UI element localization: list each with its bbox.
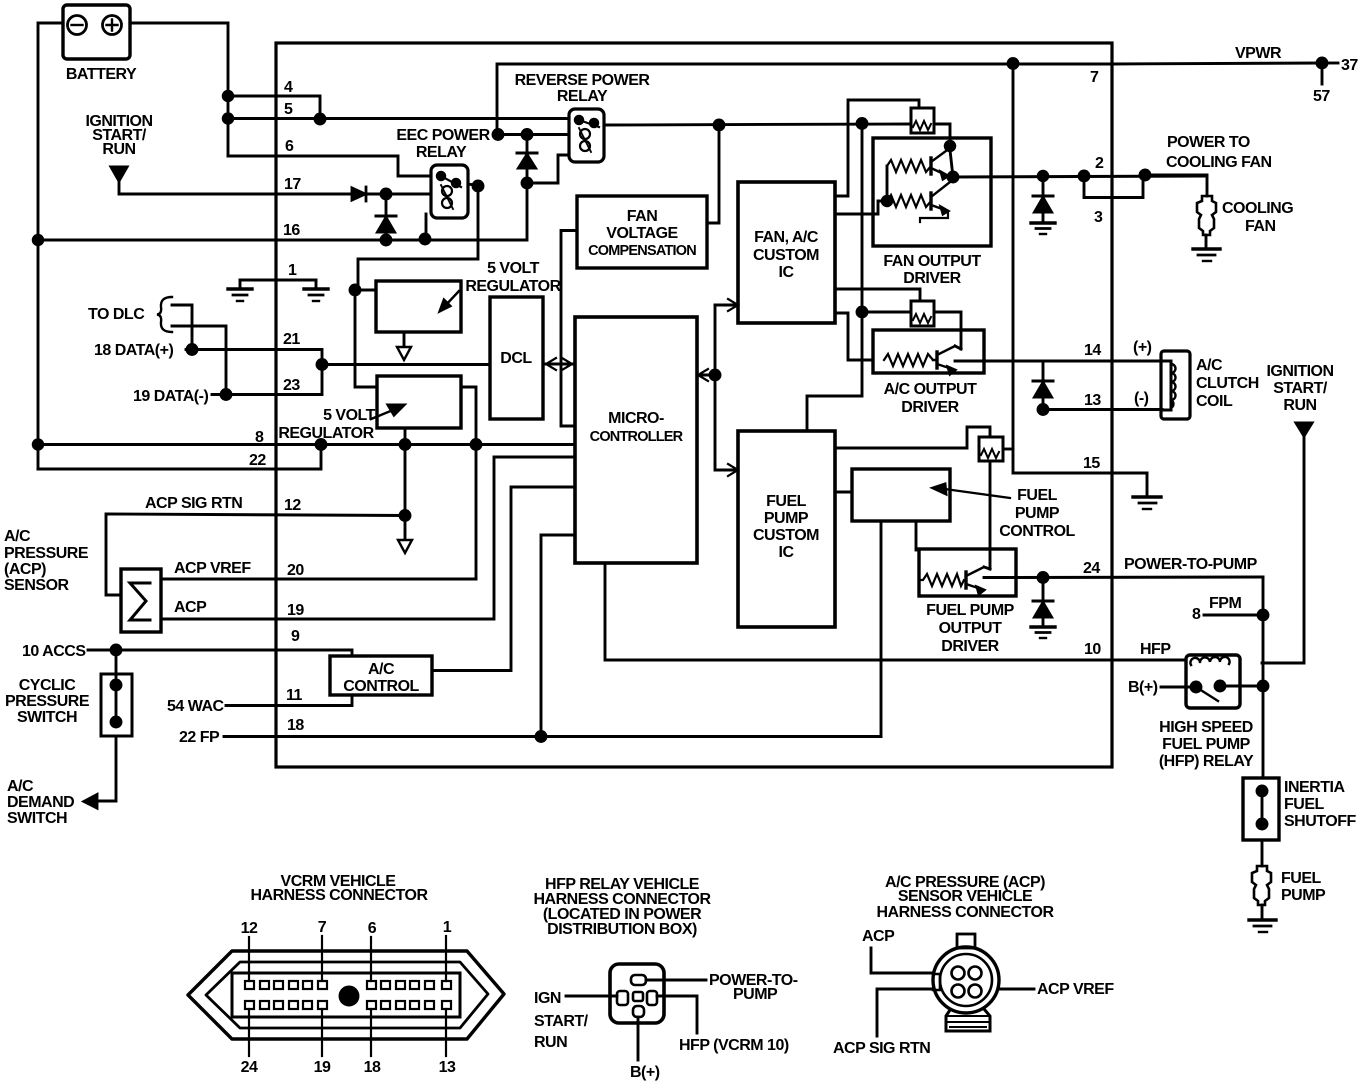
wire pin 12 ACP SIG RTN [106, 514, 405, 595]
node EEC output [473, 181, 483, 191]
sense resistor R1 box [911, 108, 934, 133]
diode CR6 wire24 clamp [1033, 577, 1053, 626]
svg-text:57: 57 [1313, 88, 1330, 105]
ignition feed arrow (right) [1296, 423, 1312, 436]
svg-text:INERTIA: INERTIA [1284, 779, 1345, 796]
svg-text:TO DLC: TO DLC [88, 306, 145, 323]
node flyback diode top [522, 130, 532, 140]
wire pin 8 VREF bus [38, 443, 575, 446]
resistor R3 zigzag [887, 195, 931, 207]
svg-text:B(+): B(+) [630, 1064, 660, 1081]
A/C demand switch arrow [84, 795, 97, 809]
microcontroller U1 box [575, 317, 697, 563]
A/C demand switch label [7, 778, 74, 827]
svg-text:12: 12 [284, 497, 301, 514]
svg-text:PUMP: PUMP [1281, 887, 1326, 904]
wire pin 4 [228, 96, 320, 119]
inertia fuel shutoff switch S2 [1243, 778, 1279, 840]
wire B(+) to relay [1161, 686, 1196, 689]
VR1 output open arrow [397, 347, 411, 360]
ignition start/run label (left) [85, 113, 152, 158]
svg-text:FAN OUTPUT: FAN OUTPUT [883, 253, 981, 270]
pin 19 leader [321, 1009, 323, 1056]
wire pin 11 WAC to A/C control [226, 695, 352, 706]
ground G7 [1249, 920, 1276, 932]
fuel pump custom IC label [753, 493, 819, 561]
svg-text:4: 4 [284, 79, 293, 96]
inertia fuel shutoff label [1284, 779, 1356, 830]
wire pin 6 to EEC relay contact [228, 156, 431, 176]
svg-text:SENSOR: SENSOR [4, 577, 70, 594]
svg-text:ACP: ACP [174, 599, 207, 616]
svg-text:6: 6 [368, 920, 377, 937]
svg-text:11: 11 [286, 687, 303, 704]
svg-text:24: 24 [241, 1059, 258, 1076]
svg-text:FAN: FAN [627, 208, 658, 225]
wire fuel IC pin to R6 top [835, 427, 990, 448]
svg-text:RELAY: RELAY [557, 88, 608, 105]
wire fan IC pin to FOD lower [835, 201, 887, 214]
svg-text:ACP VREF: ACP VREF [174, 560, 251, 577]
wire arrow into fan IC [715, 299, 738, 311]
wire pin 19 ACP into micro [161, 457, 575, 619]
svg-text:IGN: IGN [534, 990, 561, 1007]
wire pin 1 ground bus [240, 279, 316, 282]
power-to-pump label (connector) [709, 972, 798, 1003]
svg-text:SWITCH: SWITCH [7, 810, 67, 827]
svg-text:8: 8 [1192, 606, 1201, 623]
svg-text:19 DATA(-): 19 DATA(-) [133, 388, 208, 405]
pin 18 leader [370, 1009, 372, 1056]
svg-text:MICRO-: MICRO- [608, 410, 664, 427]
fan output driver box [873, 138, 991, 246]
ground G4 [1193, 249, 1220, 261]
wire fan to ground [1205, 235, 1208, 248]
wire stub into 5V regulator 1 [355, 289, 376, 292]
wire ACP VREF riser to wire 20 [475, 445, 478, 580]
wire VR2 right stub down to wire 8 [461, 387, 476, 444]
wire FVC output to microcontroller [561, 231, 577, 427]
HFP relay connector J2 [610, 964, 664, 1023]
svg-text:24: 24 [1083, 560, 1100, 577]
node AOD feed junction [857, 307, 867, 317]
svg-text:COOLING FAN: COOLING FAN [1166, 154, 1272, 171]
VR2 output open arrow (bottom) [398, 540, 412, 553]
svg-text:FAN, A/C: FAN, A/C [754, 229, 819, 246]
node wire18 micro stub [536, 732, 546, 742]
svg-text:5 VOLT: 5 VOLT [323, 407, 376, 424]
fan output driver label [883, 253, 981, 287]
EEC power relay label [396, 127, 490, 161]
svg-text:HARNESS CONNECTOR: HARNESS CONNECTOR [877, 904, 1055, 921]
svg-text:6: 6 [285, 138, 294, 155]
wire TO DLC lower stub [172, 326, 226, 394]
svg-text:18: 18 [287, 717, 304, 734]
fan A/C custom IC label [753, 229, 819, 281]
wire R1 out to Q1 [934, 124, 950, 146]
relay K2 reverse power relay [569, 109, 604, 162]
svg-text:23: 23 [283, 377, 300, 394]
wire R6 bottom to Q4 [989, 461, 992, 569]
svg-text:7: 7 [1090, 69, 1099, 86]
wire pin 15 ground stub [1146, 473, 1149, 496]
svg-text:PUMP: PUMP [1015, 505, 1060, 522]
svg-text:16: 16 [283, 222, 300, 239]
wire EEC contact output [468, 184, 478, 186]
svg-text:54 WAC: 54 WAC [167, 698, 225, 715]
wire reverse relay output bus [604, 124, 911, 125]
svg-text:VPWR: VPWR [1235, 45, 1282, 62]
wire to cooling fan [1145, 175, 1207, 196]
fuel pump output driver box [919, 549, 1016, 596]
svg-text:POWER-TO-PUMP: POWER-TO-PUMP [1124, 556, 1258, 573]
node pump feed [1258, 681, 1268, 691]
wire arrow into fuel pump IC [715, 464, 738, 476]
wire pin 2 fan output [953, 176, 1207, 177]
svg-text:FPM: FPM [1209, 595, 1241, 612]
svg-text:8: 8 [255, 429, 264, 446]
node Q1 collector [945, 141, 955, 151]
sense resistor R6 box [979, 437, 1003, 461]
pin 1 leader [445, 936, 447, 981]
node ACCS cyclic switch tap [111, 645, 121, 655]
node wire12 at VR2 stub [400, 511, 410, 521]
svg-text:19: 19 [314, 1059, 331, 1076]
svg-text:21: 21 [283, 331, 300, 348]
svg-text:SHUTOFF: SHUTOFF [1284, 813, 1356, 830]
wire arrow into micro [697, 369, 715, 381]
svg-text:18 DATA(+): 18 DATA(+) [94, 342, 173, 359]
resistor R7 zigzag [919, 574, 966, 586]
fan voltage compensation box [577, 196, 707, 268]
svg-text:22: 22 [249, 452, 266, 469]
fuel pump control label [999, 487, 1075, 540]
VCRM vehicle harness connector title [251, 873, 429, 904]
svg-text:BATTERY: BATTERY [66, 66, 137, 83]
node DATA+ stub join [187, 345, 197, 355]
svg-text:19: 19 [287, 602, 304, 619]
svg-text:FUEL PUMP: FUEL PUMP [1162, 736, 1250, 753]
svg-text:7: 7 [318, 919, 327, 936]
IGN START/RUN label (connector) [534, 990, 589, 1051]
svg-text:DEMAND: DEMAND [7, 794, 74, 811]
node CR4 on wire 2 [1038, 171, 1048, 181]
voltage regulator VR2 box [377, 376, 461, 428]
transistor Q4 [966, 567, 990, 594]
svg-text:37: 37 [1341, 57, 1358, 74]
node wire4/5 join [315, 114, 325, 124]
svg-text:20: 20 [287, 562, 304, 579]
5 volt regulator label (top) [465, 260, 561, 295]
node diode bottom / wire16 riser [522, 178, 532, 188]
wire pin 5 to reverse power relay [228, 117, 569, 120]
pin 12 leader [248, 937, 250, 981]
fan voltage compensation label [588, 208, 696, 259]
node battery junction pin5 [223, 114, 233, 124]
svg-text:CUSTOM: CUSTOM [753, 527, 819, 544]
svg-text:(HFP) RELAY: (HFP) RELAY [1159, 753, 1254, 770]
ground G3 [1031, 223, 1055, 234]
VR1 adjust arrow [440, 291, 459, 311]
svg-text:FUEL: FUEL [1017, 487, 1058, 504]
node coil feed from inner box edge [493, 130, 503, 140]
svg-text:3: 3 [1094, 209, 1103, 226]
VCRM module outer box [276, 43, 1112, 767]
wire pin 9 ACCS [88, 650, 352, 656]
wire pin 14 A/C output [955, 360, 1162, 363]
svg-text:START/: START/ [1273, 380, 1328, 397]
svg-text:SWITCH: SWITCH [17, 709, 77, 726]
svg-text:CLUTCH: CLUTCH [1196, 375, 1259, 392]
svg-text:FUEL: FUEL [766, 493, 807, 510]
svg-text:REGULATOR: REGULATOR [278, 425, 374, 442]
high speed fuel pump relay label [1159, 719, 1254, 770]
wire micro to custom ICs bus [714, 305, 717, 464]
wire fuel IC to FPC [835, 491, 852, 494]
DCL box [490, 297, 543, 419]
ground G5 [1133, 497, 1161, 509]
wire dot to EEC relay coil [386, 193, 431, 196]
pin 13 leader [445, 1009, 447, 1056]
svg-text:FUEL: FUEL [1284, 796, 1325, 813]
wire connector to B(+) [637, 1017, 640, 1060]
svg-text:HIGH SPEED: HIGH SPEED [1159, 719, 1253, 736]
wire pin 23 DATA- [212, 365, 322, 395]
cyclic pressure switch label [5, 677, 90, 726]
VCRM connector pins row 1 [245, 981, 451, 989]
wire connector to power-to-pump [646, 979, 706, 982]
svg-text:A/C: A/C [1196, 357, 1223, 374]
reverse power relay label [515, 72, 651, 105]
inner power-section boundary line (top) [497, 64, 1112, 135]
wire VR2 bottom stub through wire8 to wire12 [404, 428, 407, 538]
svg-text:REVERSE POWER: REVERSE POWER [515, 72, 651, 89]
node branch to fan voltage compensation [714, 120, 724, 130]
pin 6 leader [370, 937, 372, 981]
svg-text:ACP: ACP [862, 928, 895, 945]
svg-text:9: 9 [291, 628, 300, 645]
wire terminal dash to 37 [1327, 62, 1338, 65]
cyclic pressure switch S1 [101, 650, 132, 736]
resistor R5 zigzag [884, 354, 933, 366]
svg-text:FAN: FAN [1245, 218, 1276, 235]
wire IGN to connector [566, 995, 617, 998]
svg-text:CONTROL: CONTROL [343, 678, 419, 695]
wire reverse relay coil low [527, 155, 569, 183]
wire reverse relay coil high [498, 133, 569, 136]
transistor Q2 [920, 182, 950, 222]
svg-text:RUN: RUN [1283, 397, 1316, 414]
A/C control box [330, 656, 432, 695]
wire VPWR riser to pin15 [1013, 64, 1147, 474]
svg-text:5 VOLT: 5 VOLT [487, 260, 540, 277]
svg-text:ACP SIG RTN: ACP SIG RTN [833, 1040, 930, 1057]
wire micro to wire18 [541, 535, 575, 737]
node fan driver output [948, 172, 958, 182]
svg-text:ACP SIG RTN: ACP SIG RTN [145, 495, 242, 512]
node CR5 on wire 13 [1038, 405, 1048, 415]
svg-text:IGNITION: IGNITION [1266, 363, 1333, 380]
A/C pressure sensor label [4, 528, 89, 594]
node wire8 at battery vertical [33, 440, 43, 450]
svg-text:COOLING: COOLING [1222, 200, 1293, 217]
A/C clutch coil connector [1161, 351, 1190, 419]
node wire8 wire22 join [316, 440, 326, 450]
svg-text:(ACP): (ACP) [4, 561, 46, 578]
wire cyclic switch to demand switch [97, 736, 116, 801]
wire ACP to connector [871, 948, 933, 973]
wire connector to ACP SIG RTN [877, 989, 933, 1036]
svg-text:COIL: COIL [1196, 393, 1233, 410]
svg-text:15: 15 [1083, 455, 1100, 472]
svg-text:A/C: A/C [368, 661, 395, 678]
svg-text:10 ACCS: 10 ACCS [22, 643, 86, 660]
svg-text:2: 2 [1095, 155, 1104, 172]
node branch to fan output driver [857, 119, 867, 129]
sense resistor R4 box [911, 301, 934, 326]
wire pin 22 [38, 445, 321, 470]
wire fan IC down to AOD bus [861, 124, 864, 313]
svg-text:1: 1 [288, 262, 297, 279]
fuel pump label [1281, 870, 1326, 904]
node lower base junction [882, 196, 892, 206]
svg-text:CUSTOM: CUSTOM [753, 247, 819, 264]
wire EEC coil low to wire16 [425, 214, 428, 239]
fuel pump output driver label [926, 602, 1014, 655]
wire battery positive to bus [130, 23, 228, 156]
wire VR1 output stub [403, 332, 406, 347]
ACP sensor harness connector title [877, 874, 1055, 921]
svg-text:START/: START/ [534, 1013, 589, 1030]
wire DCL-micro data bus double arrow [543, 358, 575, 370]
ground G6 [1031, 627, 1055, 638]
wire pin 13 A/C clutch return [1043, 408, 1162, 411]
fuel pump M2 motor [1252, 866, 1271, 905]
svg-text:A/C OUTPUT: A/C OUTPUT [884, 381, 978, 398]
svg-text:CONTROLLER: CONTROLLER [590, 429, 684, 445]
wire relay contact to pump feed [1220, 685, 1263, 688]
high speed fuel pump relay K3 [1186, 655, 1240, 708]
wire FPC bottom to FPOD [915, 521, 918, 550]
wire fan IC pin jog to AOD resistor [835, 313, 873, 360]
svg-text:SENSOR VEHICLE: SENSOR VEHICLE [898, 888, 1033, 905]
ignition feed arrow [111, 167, 127, 181]
cooling fan label [1222, 200, 1293, 235]
svg-text:18: 18 [364, 1059, 381, 1076]
svg-text:ACP VREF: ACP VREF [1037, 981, 1114, 998]
node micro bus junction [710, 370, 720, 380]
svg-text:CYCLIC: CYCLIC [19, 677, 77, 694]
resistor R2 zigzag [887, 160, 931, 172]
node VPWR riser junction [1008, 59, 1018, 69]
node regulator feed tee [350, 285, 360, 295]
node DATA- stub join [221, 390, 231, 400]
wire pin 17 from ignition [119, 181, 352, 194]
svg-text:IC: IC [779, 544, 795, 561]
node cooling fan feed [1140, 170, 1150, 180]
pin 24 leader [248, 1009, 250, 1056]
svg-text:DCL: DCL [500, 350, 532, 367]
svg-text:1: 1 [443, 919, 452, 936]
wire A/C control output to micro [432, 487, 575, 671]
battery B1 [63, 5, 130, 59]
svg-text:RUN: RUN [534, 1034, 567, 1051]
node battery junction pin4 [223, 91, 233, 101]
node EEC coil on wire16 [420, 234, 430, 244]
node wire2 wire3 jumper [1079, 171, 1089, 181]
ACP sensor connector J3 [933, 934, 999, 1031]
wire EEC output to regulators [358, 186, 478, 290]
relay K1 EEC power relay [431, 165, 468, 218]
transistor Q1 [931, 148, 950, 179]
svg-text:CONTROL: CONTROL [999, 523, 1075, 540]
A/C clutch coil label [1196, 357, 1259, 410]
node wire17 diode junction [381, 189, 391, 199]
wire ignition to HFP relay coil [1262, 436, 1304, 663]
svg-text:RELAY: RELAY [416, 144, 467, 161]
VCRM connector pins row 2 [245, 1001, 451, 1009]
wire VPWR to terminal 37 [1112, 63, 1322, 64]
svg-text:A/C: A/C [4, 528, 31, 545]
pin 7 leader [321, 936, 323, 981]
svg-text:RUN: RUN [102, 141, 135, 158]
diode CR3 flyback across reverse relay coil [517, 135, 537, 184]
wire connector to HFP [657, 996, 697, 1033]
wire Q1 emitter / Q2 collector node [950, 150, 953, 180]
svg-text:EEC POWER: EEC POWER [396, 127, 490, 144]
wire pin 20 ACP VREF [161, 578, 476, 581]
wire shutoff to fuel pump [1261, 840, 1264, 866]
wire micro HFP output [605, 563, 1186, 660]
fuel pump control box [852, 469, 950, 521]
VCRM connector J1 outline [188, 951, 504, 1039]
5 volt regulator label (lower) [278, 407, 375, 442]
svg-text:PUMP: PUMP [733, 986, 778, 1003]
wire pin 16 bus [38, 183, 527, 240]
node wire8 VR2 stub [400, 440, 410, 450]
svg-text:COMPENSATION: COMPENSATION [588, 243, 696, 259]
svg-text:13: 13 [1084, 392, 1101, 409]
svg-text:HARNESS CONNECTOR: HARNESS CONNECTOR [251, 887, 429, 904]
svg-text:OUTPUT: OUTPUT [939, 620, 1003, 637]
wire pump to ground [1261, 905, 1264, 919]
svg-text:DRIVER: DRIVER [903, 270, 961, 287]
svg-text:DISTRIBUTION BOX): DISTRIBUTION BOX) [547, 921, 697, 938]
wire power-to-pump drop [1262, 577, 1265, 687]
diode CR5 A/C clutch clamp [1033, 361, 1053, 410]
svg-text:13: 13 [439, 1059, 456, 1076]
svg-text:(-): (-) [1134, 390, 1149, 407]
svg-text:PRESSURE: PRESSURE [5, 693, 90, 710]
svg-text:22 FP: 22 FP [179, 729, 220, 746]
voltage regulator VR1 box [376, 281, 461, 332]
svg-text:REGULATOR: REGULATOR [465, 278, 561, 295]
node FPM tap [1258, 610, 1268, 620]
A/C output driver box [873, 330, 984, 373]
transistor Q3 [933, 346, 961, 374]
wire fan IC pin to R1 top [835, 100, 919, 196]
ground G1 [228, 280, 252, 301]
diode CR4 wire2 clamp [1033, 176, 1053, 222]
fan A/C custom IC box [738, 182, 835, 323]
svg-text:12: 12 [241, 920, 258, 937]
node battery vertical / wire16 [33, 235, 43, 245]
node CR6 on wire 24 [1038, 573, 1048, 583]
wire pump feed down [1262, 686, 1265, 778]
wire R4 out to Q3 [934, 312, 961, 349]
zener diode CR2 to wire 16 [376, 194, 396, 240]
microcontroller label [590, 410, 684, 445]
